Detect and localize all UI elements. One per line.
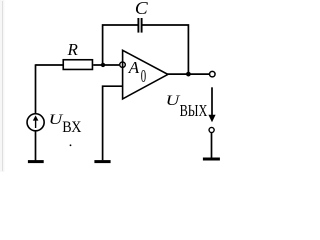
svg-text:U: U: [166, 93, 181, 109]
svg-text:0: 0: [141, 66, 146, 86]
svg-text:ВЫХ: ВЫХ: [180, 101, 208, 120]
svg-text:C: C: [135, 0, 149, 18]
svg-text:A: A: [128, 58, 140, 77]
svg-text:ВХ: ВХ: [62, 119, 81, 136]
svg-text:R: R: [67, 40, 79, 59]
